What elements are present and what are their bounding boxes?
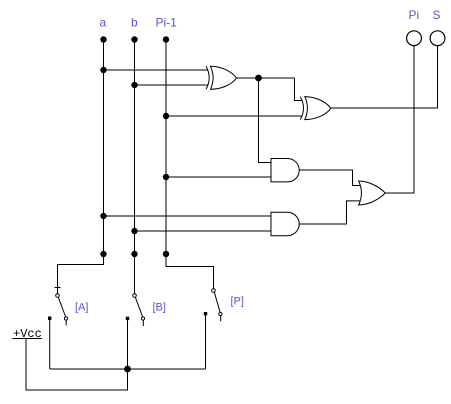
wire input Pi-1 vertical xyxy=(166,40,214,289)
switch SW-B xyxy=(126,294,145,326)
junction dot Vcc bus xyxy=(124,366,131,373)
wire b to XOR1 input xyxy=(135,84,208,86)
junction dot b switch tap xyxy=(131,251,137,257)
wire input a vertical xyxy=(58,40,104,294)
power label underline xyxy=(13,338,43,340)
switch SW-A xyxy=(48,288,68,326)
svg-text:[B]: [B] xyxy=(153,302,166,314)
wire AND2 output to OR bottom input xyxy=(299,201,360,224)
wire Vcc loop from +Vcc xyxy=(26,339,128,391)
junction dot b AND2 xyxy=(131,228,137,234)
switch SW-P xyxy=(204,289,222,322)
junction dot Pi-1 AND1 xyxy=(163,174,169,180)
terminal circle S xyxy=(430,31,445,46)
junction dot a XOR1 xyxy=(100,67,106,73)
wire XOR1 output xyxy=(237,77,295,79)
wire XOR2 output to S xyxy=(331,46,438,108)
junction dot XOR1 output node xyxy=(255,75,262,82)
and gate AND1 xyxy=(271,159,299,182)
junction dot a terminal xyxy=(100,36,106,42)
xor gate XOR2 xyxy=(300,97,331,120)
junction dot Pi-1 terminal xyxy=(163,36,169,42)
junction dot Pi-1 XOR2 xyxy=(163,113,169,119)
svg-text:S: S xyxy=(433,8,441,22)
wire Pi-1 to AND1 input xyxy=(166,176,271,178)
or gate OR1 xyxy=(359,181,386,205)
wire Pi-1 to XOR2 input xyxy=(166,115,302,117)
wire a to AND2 input xyxy=(104,215,272,217)
wire XOR1 output to XOR2 top input xyxy=(295,78,302,101)
wire switch A contact to Vcc bus xyxy=(49,318,51,369)
svg-text:Pi-1: Pi-1 xyxy=(156,16,178,30)
and gate AND2 xyxy=(271,212,299,235)
wire switch B contact to Vcc bus xyxy=(127,318,129,369)
svg-text:[P]: [P] xyxy=(231,296,244,308)
svg-text:a: a xyxy=(100,16,107,30)
wire XOR1 output branch to AND1 top input xyxy=(259,78,272,163)
svg-text:Pi: Pi xyxy=(409,8,420,22)
svg-text:[A]: [A] xyxy=(75,302,88,314)
junction dot b terminal xyxy=(131,36,137,42)
junction dot a AND2 xyxy=(100,213,106,219)
wire AND1 output to OR top input xyxy=(299,170,360,186)
wire Vcc bus horizontal xyxy=(50,368,206,370)
xor gate XOR1 xyxy=(206,66,237,89)
wire a to XOR1 input xyxy=(104,69,208,71)
junction dot a switch tap xyxy=(100,251,106,257)
svg-text:b: b xyxy=(131,16,138,30)
wire OR output to Pi xyxy=(385,46,414,193)
junction dot Pi-1 switch tap xyxy=(163,251,169,257)
junction dot b XOR1 xyxy=(131,82,137,88)
wire switch P contact to Vcc bus xyxy=(205,314,207,369)
terminal circle Pi xyxy=(407,31,422,46)
wire input b vertical xyxy=(134,40,136,294)
wire b to AND2 input xyxy=(135,230,272,232)
